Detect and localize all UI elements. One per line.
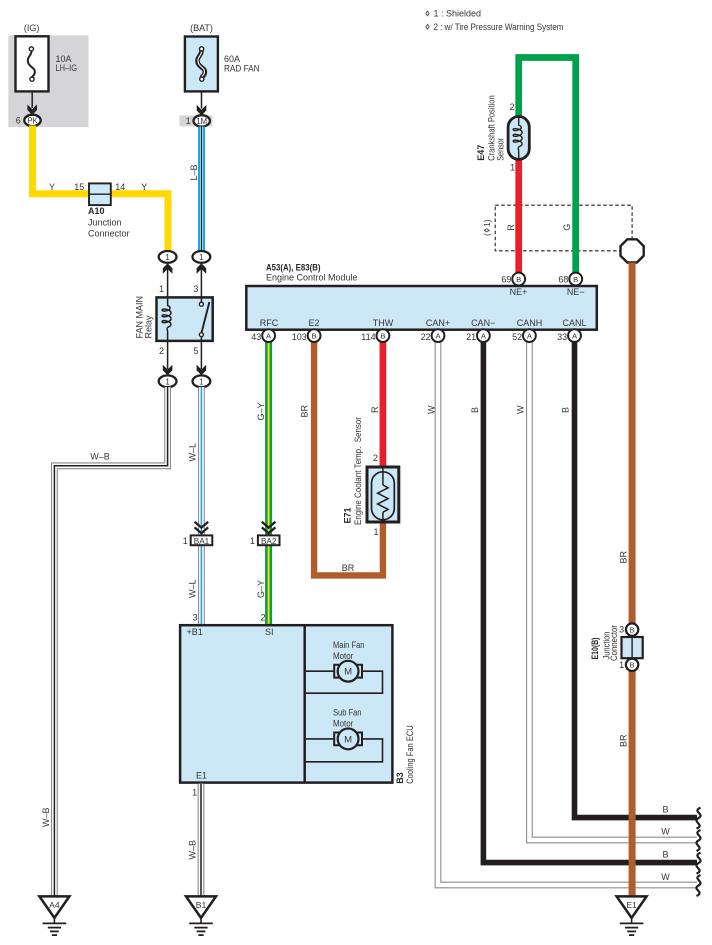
svg-text:Y: Y: [141, 182, 147, 192]
switch: [200, 297, 202, 302]
svg-text:CAN−: CAN−: [471, 318, 495, 328]
svg-text:1: 1: [619, 660, 624, 670]
main fan motor M1: [306, 640, 383, 693]
connector 1 (below pin5): [193, 375, 211, 387]
svg-text:103: 103: [292, 332, 307, 342]
connector 6 PK: [16, 115, 41, 126]
coil: [162, 297, 171, 341]
wire relay pin2 down with arrow: [167, 342, 169, 369]
svg-text:Y: Y: [49, 182, 55, 192]
pin 103 B (E2): [292, 329, 321, 342]
svg-text:G–Y: G–Y: [256, 580, 266, 598]
shield connector BA1: [183, 522, 213, 546]
svg-text:5: 5: [193, 346, 198, 356]
wire fusible link to connector: [201, 92, 203, 109]
svg-text:W: W: [661, 827, 670, 837]
svg-text:Engine Coolant Temp. Sensor: Engine Coolant Temp. Sensor: [353, 417, 363, 525]
svg-text:B: B: [662, 850, 668, 860]
svg-text:BR: BR: [619, 550, 629, 563]
svg-text:RFC: RFC: [260, 318, 279, 328]
svg-text:Connector: Connector: [88, 229, 130, 239]
svg-text:3: 3: [193, 284, 198, 294]
svg-text:B: B: [630, 661, 635, 670]
svg-text:R: R: [506, 224, 516, 231]
wire B CAN-: [483, 340, 697, 863]
wire into relay pin 3 with up arrow: [200, 263, 202, 297]
svg-text:G–Y: G–Y: [256, 402, 266, 420]
svg-text:W: W: [426, 405, 436, 414]
svg-text:BR: BR: [342, 563, 355, 573]
svg-text:E10(B): E10(B): [590, 638, 600, 660]
svg-text:E2: E2: [308, 318, 319, 328]
svg-text:B: B: [470, 407, 480, 413]
svg-text:2: 2: [261, 613, 266, 623]
svg-text:B: B: [630, 626, 635, 635]
svg-text:1: 1: [373, 527, 378, 537]
wire into relay pin 1 with up arrow: [167, 263, 169, 297]
wire W-B relay pin2 to ground A4: [54, 387, 167, 896]
svg-text:B: B: [662, 805, 668, 815]
svg-text:3: 3: [619, 625, 624, 635]
svg-text:W–L: W–L: [188, 443, 198, 462]
ground B1: [186, 896, 216, 935]
ground A4: [39, 896, 69, 935]
pin 52 A (CANH): [512, 329, 536, 342]
svg-text:NE−: NE−: [567, 287, 585, 297]
svg-text:A4: A4: [49, 900, 60, 910]
wire R (NE+) E47 pin1 to ECM 69: [515, 160, 522, 274]
svg-text:E71: E71: [342, 507, 352, 523]
note 2: Tire Pressure Warning System: [426, 22, 564, 32]
wire R over dashed box (redraw): [515, 204, 522, 252]
svg-text:NE+: NE+: [510, 287, 528, 297]
svg-text:CAN+: CAN+: [426, 318, 450, 328]
wire R THW to E71 pin2: [380, 340, 387, 467]
svg-text:(: (: [482, 233, 492, 236]
svg-text:6: 6: [16, 116, 21, 126]
ECM pin 69 B: [501, 273, 527, 298]
svg-text:1: 1: [199, 377, 204, 386]
svg-text:R: R: [370, 406, 380, 413]
svg-text:BR: BR: [300, 404, 310, 417]
wire relay pin5 down with arrow: [200, 342, 202, 369]
ECM pin 68 B: [558, 273, 584, 298]
svg-text:1: 1: [192, 787, 197, 797]
svg-text:W: W: [516, 405, 526, 414]
svg-text:43: 43: [251, 332, 261, 342]
wire BR octagon to E1 ground: [629, 263, 636, 897]
wire fuse to connector: [31, 93, 33, 108]
svg-text:(BAT): (BAT): [190, 23, 213, 33]
svg-text:PK: PK: [27, 116, 38, 125]
wire break squiggles: [696, 808, 700, 829]
svg-text:W–B: W–B: [187, 840, 197, 860]
svg-text:M: M: [344, 734, 352, 745]
svg-text:1: 1: [183, 536, 188, 546]
svg-text:RAD FAN: RAD FAN: [224, 63, 260, 73]
wire G (NE-) E47 pin2 loop to ECM 68: [519, 58, 576, 274]
svg-text:Motor: Motor: [333, 718, 353, 728]
pin 33 A (CANL): [557, 329, 581, 342]
sub fan motor M2: [306, 708, 383, 762]
shield ground octagon: [621, 239, 644, 262]
svg-text:B1: B1: [196, 900, 207, 910]
shield connector BA2: [250, 522, 280, 546]
wire W-L relay pin5 to +B1: [198, 387, 205, 625]
svg-text:68: 68: [558, 275, 568, 285]
fuse block shading (IG): [8, 35, 88, 127]
svg-text:Connector: Connector: [609, 625, 619, 661]
svg-text:1: 1: [250, 536, 255, 546]
svg-text:W–B: W–B: [90, 451, 110, 461]
svg-text:SI: SI: [265, 627, 274, 637]
fusible link 60A RAD FAN: [185, 37, 260, 92]
engine coolant temp sensor E71: [342, 417, 398, 537]
wire B CANL: [575, 340, 698, 818]
svg-text:1: 1: [165, 377, 170, 386]
svg-text:G: G: [562, 224, 572, 231]
internal divider: [303, 625, 306, 782]
connector 1 1M: [180, 115, 213, 126]
note 1: Shielded: [426, 9, 481, 19]
wire L-B from 1M to relay pin3: [198, 127, 205, 253]
svg-text:1): 1): [482, 219, 492, 227]
connector 1 (relay pin3 top): [193, 251, 211, 263]
svg-text:Cooling Fan ECU: Cooling Fan ECU: [405, 725, 415, 784]
svg-text:114: 114: [361, 332, 375, 342]
wire W-B E1 to ground B1: [198, 784, 205, 896]
svg-text:BR: BR: [619, 734, 629, 747]
shield dashed box (*1): [495, 205, 632, 251]
svg-text:E1: E1: [626, 900, 637, 910]
svg-text:Engine Control Module: Engine Control Module: [266, 273, 358, 283]
svg-text:Sensor: Sensor: [495, 138, 505, 161]
svg-text:CANL: CANL: [562, 318, 586, 328]
svg-text:B: B: [312, 332, 317, 341]
wire W CANH: [529, 340, 697, 840]
svg-text:M: M: [344, 667, 352, 678]
svg-text:1: 1: [199, 253, 204, 262]
svg-text:22: 22: [421, 332, 431, 342]
svg-text:1 : Shielded: 1 : Shielded: [434, 9, 482, 19]
svg-text:A53(A), E83(B): A53(A), E83(B): [266, 262, 321, 272]
wire W CAN+: [438, 340, 697, 885]
svg-text:B: B: [516, 275, 521, 284]
fuse 10A LH-IG: [16, 36, 78, 91]
svg-text:21: 21: [466, 332, 476, 342]
svg-text:2: 2: [510, 102, 515, 112]
svg-text:W: W: [661, 872, 670, 882]
connector 1 (relay pin1 top): [159, 251, 177, 263]
junction connector A10: [74, 182, 129, 239]
svg-text:THW: THW: [373, 318, 394, 328]
svg-text:CANH: CANH: [517, 318, 543, 328]
svg-text:B: B: [380, 332, 385, 341]
connector 1 (below pin2): [159, 375, 177, 387]
svg-text:Main Fan: Main Fan: [333, 640, 365, 650]
wire G-Y RFC to SI: [265, 340, 272, 625]
svg-text:69: 69: [501, 275, 511, 285]
pin 43 A (RFC): [251, 329, 275, 342]
svg-text:2: 2: [159, 346, 164, 356]
svg-text:LH–IG: LH–IG: [56, 63, 78, 73]
svg-text:E47: E47: [476, 145, 486, 161]
svg-text:3: 3: [193, 613, 198, 623]
svg-text:14: 14: [115, 182, 125, 192]
svg-text:Junction: Junction: [88, 218, 122, 228]
crankshaft position sensor E47: [476, 95, 529, 172]
svg-text:BA2: BA2: [261, 537, 277, 546]
svg-text:1: 1: [165, 253, 170, 262]
pin 21 A (CAN-): [466, 329, 490, 342]
svg-text:L–B: L–B: [189, 164, 199, 180]
svg-text:1: 1: [186, 116, 191, 126]
svg-text:Relay: Relay: [144, 315, 154, 339]
label (*1): [482, 219, 492, 236]
svg-text:15: 15: [74, 182, 84, 192]
svg-text:33: 33: [557, 332, 567, 342]
svg-text:(IG): (IG): [24, 23, 40, 33]
svg-text:52: 52: [512, 332, 522, 342]
svg-text:E1: E1: [196, 770, 207, 780]
relay FAN MAIN: [157, 297, 213, 341]
svg-text:Motor: Motor: [333, 651, 353, 661]
svg-text:2: 2: [373, 453, 378, 463]
svg-text:B: B: [560, 407, 570, 413]
pin 114 B (THW): [361, 329, 389, 342]
wire BR E2 to E71 pin1: [314, 340, 383, 575]
ground E1: [617, 896, 647, 935]
svg-text:1: 1: [510, 163, 515, 173]
svg-text:2 : w/ Tire Pressure Warning S: 2 : w/ Tire Pressure Warning System: [434, 22, 564, 32]
svg-text:+B1: +B1: [186, 627, 202, 637]
svg-text:1M: 1M: [196, 117, 207, 126]
pin 22 A (CAN+): [421, 329, 445, 342]
svg-text:W–L: W–L: [188, 579, 198, 598]
wire Y from PK to A10 to relay pin1: [33, 126, 169, 253]
ECM box A53/E83: [246, 262, 597, 329]
svg-text:B3: B3: [395, 772, 405, 784]
svg-text:1: 1: [159, 284, 164, 294]
junction connector E10(B): [590, 623, 643, 671]
svg-text:W–B: W–B: [41, 807, 51, 827]
svg-text:Sub Fan: Sub Fan: [333, 708, 362, 718]
svg-text:B: B: [573, 275, 578, 284]
svg-text:A10: A10: [88, 206, 105, 216]
svg-text:BA1: BA1: [194, 537, 210, 546]
